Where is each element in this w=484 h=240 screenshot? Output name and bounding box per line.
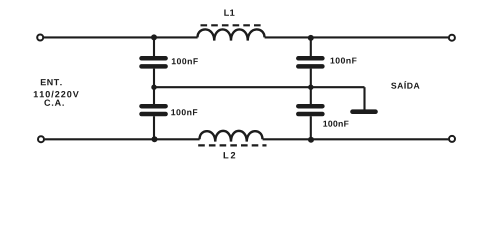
junction node F [308,137,314,143]
capacitor C1 100nF (upper left) [142,58,166,66]
wire node B to output top [311,36,449,38]
inductor L2 [200,131,263,142]
junction node B [308,35,314,41]
wire C4 to node F [310,116,312,139]
core line of L1 (dashed) [201,24,264,26]
wire node A to L1 [154,36,198,38]
label SAIDA (output) [391,81,419,89]
value label 100nF (C3) [331,58,357,64]
core line of L2 (dashed) [198,144,266,146]
label L2 [224,152,236,158]
wire node B down to C3 [310,37,312,56]
inductor L1 [198,29,265,40]
wire ground drop vertical [363,87,365,110]
capacitor C3 100nF (upper right) [298,58,322,66]
capacitor C4 100nF (lower right) [298,106,322,114]
capacitor C2 100nF (lower left) [142,106,166,114]
wire node E to L2 [154,138,200,140]
junction node C (mid left) [151,85,156,90]
wire top-left (input to node A) [44,36,154,38]
wire node A down to C1 [153,37,155,56]
junction node A [151,34,157,40]
label 110/220V [34,91,79,98]
terminal output top [449,35,455,41]
wire C3 to node D [310,69,312,88]
wire node D to ground drop [311,86,365,88]
label ENT. [41,79,62,85]
junction node D (mid right) [308,85,313,90]
value label 100nF (C2) [171,109,197,115]
wire middle rung node C to node D [154,86,311,88]
label C.A. [44,100,63,106]
wire node F to output bottom [311,138,449,140]
wire L2 to node F [263,138,311,140]
wire L1 to node B [265,36,311,38]
wire node C to C2 [153,87,155,104]
wire C2 to node E [153,116,155,139]
terminal input bottom [38,136,44,142]
label L1 [224,10,234,16]
terminal output bottom [449,136,455,142]
terminal input top [37,35,43,41]
value label 100nF (C1) [172,58,198,64]
wire bottom-left (input to node E) [45,138,154,140]
value label 100nF (C4) [323,121,348,127]
junction node E [152,136,158,142]
ground symbol [353,109,376,114]
wire node D to C4 [310,87,312,104]
wire C1 to node C [153,69,155,88]
